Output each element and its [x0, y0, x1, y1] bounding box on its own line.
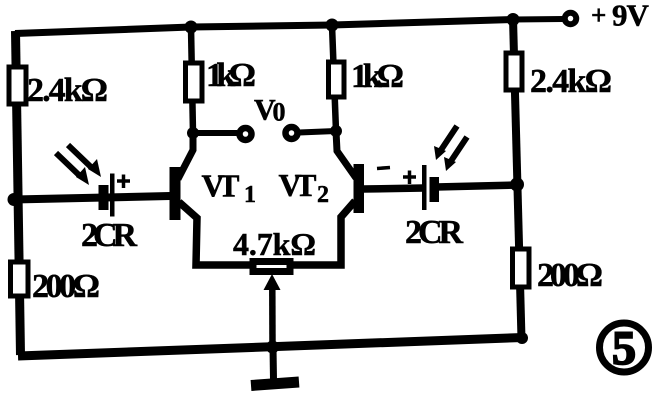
svg-text:4.7kΩ: 4.7kΩ [233, 226, 316, 262]
svg-text:+: + [591, 0, 606, 30]
svg-text:2.4kΩ: 2.4kΩ [530, 63, 612, 100]
svg-text:VT: VT [202, 168, 240, 204]
svg-text:9V: 9V [612, 0, 650, 33]
svg-text:1kΩ: 1kΩ [351, 58, 404, 95]
svg-text:2CR: 2CR [81, 217, 137, 254]
svg-text:200Ω: 200Ω [537, 257, 603, 294]
svg-text:200Ω: 200Ω [32, 268, 100, 305]
svg-text:2: 2 [317, 182, 329, 208]
svg-text:2CR: 2CR [405, 214, 463, 251]
svg-text:VT: VT [279, 167, 317, 203]
svg-text:2.4kΩ: 2.4kΩ [27, 72, 108, 109]
svg-text:1kΩ: 1kΩ [206, 57, 256, 94]
svg-text:1: 1 [244, 182, 256, 208]
svg-text:0: 0 [273, 98, 286, 127]
svg-text:5: 5 [612, 322, 636, 375]
